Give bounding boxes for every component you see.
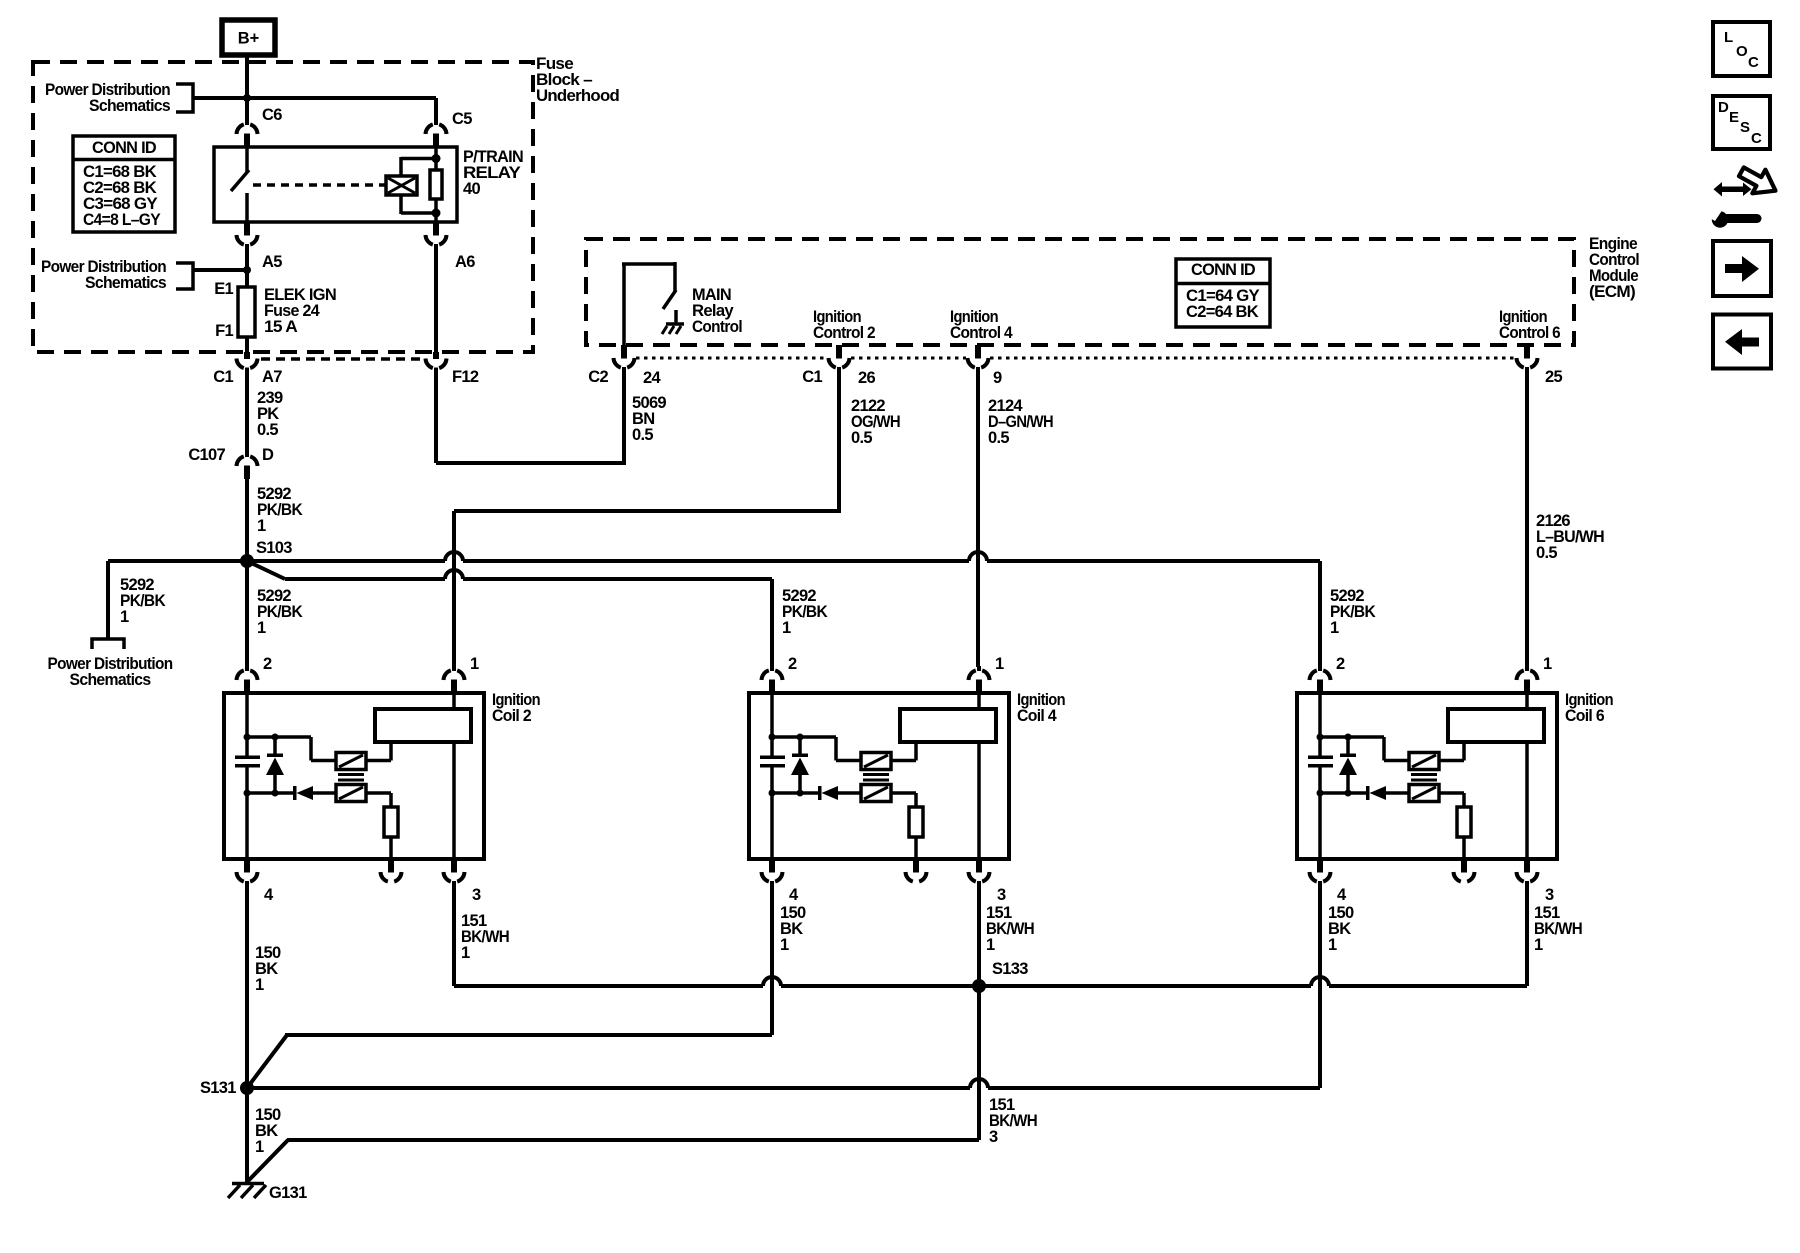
connector C107 pin D xyxy=(237,452,258,479)
coil 6 node d xyxy=(1345,790,1352,797)
wire hop over coil4 pin4 xyxy=(763,977,781,986)
wire 5069 BN 0.5 xyxy=(436,367,626,463)
coil 6 primary winding top xyxy=(1409,753,1439,770)
wire relay coil top branch xyxy=(401,157,436,161)
label Ignition Control 2 xyxy=(813,308,875,342)
relay P/TRAIN RELAY 40 box xyxy=(214,147,457,222)
wire B+ down to connector C6 xyxy=(245,55,249,121)
label 5292 coil6 xyxy=(1330,587,1376,637)
coil 4 primary winding bottom xyxy=(861,785,891,802)
ignition coil 2 box xyxy=(224,693,484,859)
svg-text:S103: S103 xyxy=(256,539,292,557)
icon diagnostic wrench with arrows xyxy=(1701,160,1782,228)
svg-text:1: 1 xyxy=(995,655,1004,673)
svg-text:Schematics: Schematics xyxy=(89,97,170,115)
label wire 2124 D-GN/WH 0.5 xyxy=(988,397,1053,447)
connector C6 xyxy=(237,120,258,147)
label Ignition Coil 4 xyxy=(1017,691,1066,725)
coil 6 diode xyxy=(1366,786,1386,800)
splice S133 xyxy=(972,979,986,993)
svg-text:1: 1 xyxy=(255,1138,264,1156)
wire 151 BK/WH coil4 pin3 through S133 xyxy=(977,881,981,1140)
svg-text:CONN ID: CONN ID xyxy=(92,139,157,157)
connector coil 4 pin 3 xyxy=(969,859,990,886)
svg-text:24: 24 xyxy=(643,369,661,387)
coil 6 internal wire pin2 xyxy=(1318,693,1322,757)
coil 6 internal wire pin1 xyxy=(1525,693,1529,859)
svg-text:C: C xyxy=(1751,130,1762,147)
svg-text:Control 2: Control 2 xyxy=(813,324,875,342)
coil 6 resistor xyxy=(1457,807,1471,837)
svg-text:1: 1 xyxy=(986,936,995,954)
coil 2 primary winding bottom xyxy=(336,785,366,802)
svg-text:D: D xyxy=(1718,99,1729,116)
connector coil 4 pin 2 xyxy=(762,666,783,693)
coil 6 secondary winding xyxy=(1448,709,1544,742)
svg-text:3: 3 xyxy=(997,886,1006,904)
label wire 150 coil 2 xyxy=(255,944,281,994)
coil 2 node d xyxy=(272,790,279,797)
ignition coil 6 module xyxy=(1297,655,1614,904)
svg-text:1: 1 xyxy=(255,976,264,994)
coil 6 node b xyxy=(1345,734,1352,741)
wire hop over coil6 pin4 xyxy=(1311,977,1329,986)
coil 4 internal wire pin2 xyxy=(770,693,774,757)
svg-text:L: L xyxy=(1724,29,1733,46)
coil 2 diode xyxy=(293,786,313,800)
wire C5 into relay resistor xyxy=(434,147,438,170)
wire 5292 PK/BK to S103 xyxy=(245,479,249,561)
relay node bottom xyxy=(432,209,441,218)
label 5292 coil2 xyxy=(257,587,303,637)
connector F12 xyxy=(426,352,447,373)
coil 2 control rail xyxy=(247,791,336,795)
wire 150 BK S131 to G131 xyxy=(245,1088,249,1183)
svg-text:0.5: 0.5 xyxy=(851,429,872,447)
svg-text:S: S xyxy=(1740,119,1750,136)
svg-text:1: 1 xyxy=(782,619,791,637)
ECM CONN ID table xyxy=(1176,259,1270,327)
svg-text:Coil 6: Coil 6 xyxy=(1565,707,1604,725)
svg-text:Control 6: Control 6 xyxy=(1499,324,1560,342)
svg-text:1: 1 xyxy=(120,608,129,626)
ECM internal ground xyxy=(662,324,684,334)
junction at B+ branch xyxy=(243,94,251,102)
icon back arrow xyxy=(1713,315,1771,369)
label wire 151 BK/WH 3 xyxy=(989,1096,1037,1146)
label wire 5069 BN 0.5 xyxy=(632,394,666,444)
label MAIN Relay Control xyxy=(692,286,742,336)
ignition coil 6 box xyxy=(1297,693,1557,859)
connector C1 pin A7 xyxy=(237,352,258,373)
connector coil 2 pin 2 xyxy=(237,666,258,693)
svg-text:C2=64 BK: C2=64 BK xyxy=(1186,303,1259,321)
svg-text:C2: C2 xyxy=(588,368,608,386)
wire 151 BK/WH coil6 pin3 xyxy=(1525,881,1529,986)
coil 2 resistor xyxy=(384,807,398,837)
label wire 5292 PK/BK 1 xyxy=(257,485,303,535)
wire 150 BK diagonal from S131 xyxy=(247,1035,772,1088)
svg-text:Coil 4: Coil 4 xyxy=(1017,707,1057,725)
svg-text:C6: C6 xyxy=(262,106,282,124)
svg-text:3: 3 xyxy=(989,1128,998,1146)
svg-text:2: 2 xyxy=(1336,655,1345,673)
connector C5 xyxy=(426,120,447,147)
ignition coil 4 module xyxy=(749,655,1066,904)
svg-text:G131: G131 xyxy=(269,1184,307,1202)
svg-text:Control 4: Control 4 xyxy=(950,324,1013,342)
svg-text:E: E xyxy=(1729,109,1739,126)
label Fuse Block - Underhood xyxy=(536,55,619,105)
svg-text:D: D xyxy=(262,446,274,464)
label wire 150 BK 1 (ground leg) xyxy=(255,1106,281,1156)
svg-text:40: 40 xyxy=(463,180,480,198)
svg-text:B+: B+ xyxy=(238,30,260,48)
label wire 150 coil 4 xyxy=(780,904,806,954)
relay switch lower contact xyxy=(245,193,249,222)
wire fuse F1 to connector A7 xyxy=(245,337,249,352)
coil 4 node c xyxy=(769,790,776,797)
wire 2126 L-BU/WH 0.5 xyxy=(1525,367,1529,667)
svg-text:C107: C107 xyxy=(188,446,225,464)
coil 2 internal wire pin2 xyxy=(245,693,249,757)
coil 2 node a xyxy=(244,734,251,741)
svg-text:Coil 2: Coil 2 xyxy=(492,707,531,725)
svg-text:1: 1 xyxy=(1330,619,1339,637)
connector coil 6 pin 2 xyxy=(1310,666,1331,693)
coil 2 internal wire pin1 xyxy=(452,693,456,859)
connector coil 2 pin 1 xyxy=(444,666,465,693)
wire 2124 D-GN/WH 0.5 xyxy=(976,367,980,667)
svg-text:C5: C5 xyxy=(452,110,472,128)
icon forward arrow xyxy=(1713,241,1771,296)
connector coil 6 pin 3 xyxy=(1517,859,1538,886)
svg-text:1: 1 xyxy=(1328,936,1337,954)
coil 6 resistor lead xyxy=(1462,837,1466,859)
icon DESC xyxy=(1713,96,1770,149)
ignition coil 4 box xyxy=(749,693,1009,859)
label Power Distribution Schematics (middle) xyxy=(41,258,167,292)
wire 239 PK 0.5 xyxy=(245,369,249,453)
icon LOC xyxy=(1713,22,1770,76)
label wire 2122 OG/WH 0.5 xyxy=(851,397,900,447)
svg-text:2: 2 xyxy=(263,655,272,673)
coil 2 node b xyxy=(272,734,279,741)
coil 4 node d xyxy=(797,790,804,797)
label wire 239 PK 0.5 xyxy=(257,389,283,439)
ground G131 xyxy=(228,1184,266,1199)
coil 6 primary feed rail xyxy=(1320,737,1409,761)
B+ battery feed symbol xyxy=(222,20,275,55)
svg-text:S133: S133 xyxy=(992,960,1028,978)
svg-text:A5: A5 xyxy=(262,253,282,271)
Fuse Block - Underhood dashed box xyxy=(33,62,533,352)
svg-text:1: 1 xyxy=(257,619,266,637)
wire hop over 2122 xyxy=(445,552,463,561)
label wire 5292 PK/BK 1 (left) xyxy=(120,576,166,626)
svg-text:C: C xyxy=(1748,54,1759,71)
coil 6 primary winding bottom xyxy=(1409,785,1439,802)
coil 4 capacitor xyxy=(760,756,785,768)
connector coil 6 unused pin xyxy=(1454,859,1475,882)
svg-text:1: 1 xyxy=(1534,936,1543,954)
wire A6 down to F12 xyxy=(434,244,438,352)
wire 2122 OG/WH 0.5 xyxy=(454,367,841,667)
label 5292 coil4 xyxy=(782,587,828,637)
wire B+ branch to C5 xyxy=(193,96,247,100)
coil 2 capacitor xyxy=(235,756,260,768)
svg-text:A6: A6 xyxy=(455,253,475,271)
label Power Distribution Schematics (top) xyxy=(45,81,171,115)
coil 4 secondary winding xyxy=(900,709,996,742)
svg-text:C1: C1 xyxy=(802,368,822,386)
ECM main relay control driver xyxy=(622,262,676,345)
svg-text:S131: S131 xyxy=(200,1079,236,1097)
coil 2 resistor lead xyxy=(389,837,393,859)
svg-text:Schematics: Schematics xyxy=(70,671,151,689)
wire 5292 second feed xyxy=(285,577,772,581)
svg-text:(ECM): (ECM) xyxy=(1589,283,1635,301)
coil 4 zener diode xyxy=(791,737,809,793)
svg-text:0.5: 0.5 xyxy=(257,421,278,439)
coil 4 resistor lead xyxy=(914,837,918,859)
coil 6 node a xyxy=(1317,734,1324,741)
wire 151 BK/WH rail xyxy=(454,984,1527,988)
splice S103 xyxy=(240,554,254,568)
svg-text:C4=8 L–GY: C4=8 L–GY xyxy=(83,211,161,229)
connector coil 4 pin 4 xyxy=(762,859,783,886)
label Power Distribution Schematics (bottom) xyxy=(48,655,174,689)
label wire 151 coil 2 xyxy=(461,912,509,962)
connector coil 4 pin 1 xyxy=(969,666,990,693)
wire hop over 2122 (second) xyxy=(445,570,463,579)
wire branch down to C5 xyxy=(434,98,438,121)
coil 2 zener diode xyxy=(266,737,284,793)
wire relay coil bottom branch xyxy=(399,195,403,214)
power distribution schematics reference (middle) xyxy=(176,263,193,289)
wire 5292 down to coil6 pin2 xyxy=(1318,561,1322,667)
svg-text:9: 9 xyxy=(993,369,1002,387)
ignition coil 2 module xyxy=(224,655,541,904)
coil 6 zener diode xyxy=(1339,737,1357,793)
svg-text:Control: Control xyxy=(692,318,742,336)
wire 5292 down to coil2 pin2 xyxy=(245,561,249,667)
svg-text:E1: E1 xyxy=(214,280,233,298)
connector coil 2 pin 4 xyxy=(237,859,258,886)
svg-text:1: 1 xyxy=(1543,655,1552,673)
wire 151 BK/WH coil2 pin3 to S133 rail xyxy=(452,881,456,986)
svg-text:25: 25 xyxy=(1545,368,1562,386)
relay resistor xyxy=(430,170,442,199)
svg-text:0.5: 0.5 xyxy=(1536,544,1557,562)
power distribution schematics reference (top) xyxy=(176,84,193,112)
wire 5292 down to coil4 pin2 xyxy=(770,579,774,667)
power distribution schematics reference (bottom) xyxy=(92,639,124,649)
label wire 151 coil 4 xyxy=(986,904,1034,954)
coil 2 primary winding top xyxy=(336,753,366,770)
coil 2 node c xyxy=(244,790,251,797)
svg-text:0.5: 0.5 xyxy=(632,426,653,444)
splice S131 xyxy=(240,1081,254,1095)
coil 4 transformer core xyxy=(863,773,889,782)
relay actuation dashed link xyxy=(253,183,386,187)
coil 4 control rail xyxy=(772,791,861,795)
junction at fuse feed xyxy=(243,266,251,274)
svg-text:3: 3 xyxy=(472,886,481,904)
svg-text:1: 1 xyxy=(470,655,479,673)
connector C1 pin 26 xyxy=(829,345,850,372)
relay switch blade xyxy=(231,170,249,191)
coil 4 resistor xyxy=(909,807,923,837)
wire 5292 branch to coil4 xyxy=(247,561,285,579)
wire branch to power distribution xyxy=(193,268,247,272)
wire 150 BK coil6 pin4 xyxy=(1318,881,1322,1088)
svg-text:3: 3 xyxy=(1545,886,1554,904)
label Ignition Coil 2 xyxy=(492,691,541,725)
label Ignition Control 6 xyxy=(1499,308,1560,342)
coil 6 transformer core xyxy=(1411,773,1437,782)
label wire 151 coil 6 xyxy=(1534,904,1582,954)
coil 4 primary winding top xyxy=(861,753,891,770)
connector strip dotted line (ECM) xyxy=(636,357,1515,360)
svg-text:1: 1 xyxy=(461,944,470,962)
coil 6 node c xyxy=(1317,790,1324,797)
connector A6 xyxy=(426,222,447,249)
coil 4 primary feed rail xyxy=(772,737,861,761)
wire 5292 main feed from S103 xyxy=(108,559,1320,563)
coil 4 diode xyxy=(818,786,838,800)
relay coil (X box) xyxy=(386,176,417,195)
svg-text:A7: A7 xyxy=(262,368,282,386)
connector pin 9 xyxy=(968,345,989,372)
coil 2 transformer core xyxy=(338,773,364,782)
connector pin 25 xyxy=(1517,345,1538,372)
svg-text:F1: F1 xyxy=(215,322,233,340)
label Engine Control Module (ECM) xyxy=(1589,235,1639,301)
svg-text:O: O xyxy=(1736,43,1748,60)
fuse block CONN ID table xyxy=(73,136,175,232)
svg-text:2: 2 xyxy=(788,655,797,673)
connector C2 pin 24 xyxy=(614,345,635,372)
relay switch upper contact xyxy=(245,147,249,172)
svg-text:15 A: 15 A xyxy=(264,318,298,336)
coil 2 winding connections xyxy=(366,744,391,807)
connector A5 xyxy=(237,222,258,249)
wire 150 BK coil2 pin4 to S131 xyxy=(245,881,249,1088)
label Ignition Control 4 xyxy=(950,308,1013,342)
relay node top xyxy=(432,154,441,163)
coil 6 winding connections xyxy=(1439,744,1464,807)
label Ignition Coil 6 xyxy=(1565,691,1614,725)
connector coil 2 unused pin xyxy=(381,859,402,882)
label P/TRAIN RELAY 40 xyxy=(463,148,523,198)
coil 4 winding connections xyxy=(891,744,916,807)
coil 4 internal wire pin1 xyxy=(977,693,981,859)
svg-text:C1: C1 xyxy=(213,368,233,386)
coil 2 secondary winding xyxy=(375,709,471,742)
svg-text:1: 1 xyxy=(257,517,266,535)
connector coil 6 pin 1 xyxy=(1517,666,1538,693)
wire 151 BK/WH 3 to ground xyxy=(248,1140,979,1181)
connector coil 4 unused pin xyxy=(906,859,927,882)
coil 6 control rail xyxy=(1320,791,1409,795)
wire horizontal branch xyxy=(245,96,436,100)
wire 5292 left branch to power distribution xyxy=(106,561,110,639)
svg-text:CONN ID: CONN ID xyxy=(1191,261,1256,279)
svg-text:F12: F12 xyxy=(452,368,479,386)
connector strip dotted line (fuse block) xyxy=(261,357,424,361)
svg-text:0.5: 0.5 xyxy=(988,429,1009,447)
wire 150 BK coil4 pin4 xyxy=(770,881,774,1035)
svg-text:26: 26 xyxy=(858,369,875,387)
label ELEK IGN Fuse 24 15 A xyxy=(264,286,336,336)
wire 150 BK rail from S131 xyxy=(247,1086,1320,1090)
coil 4 node a xyxy=(769,734,776,741)
svg-text:Schematics: Schematics xyxy=(85,274,166,292)
wire hop over 2124 xyxy=(969,552,987,561)
coil 2 primary feed rail xyxy=(247,737,336,761)
coil 4 node b xyxy=(797,734,804,741)
Engine Control Module dashed box xyxy=(586,239,1574,345)
fuse ELEK IGN Fuse 24 15A xyxy=(238,287,255,337)
wire hop over 151 vertical xyxy=(970,1079,988,1088)
coil 6 capacitor xyxy=(1308,756,1333,768)
connector coil 6 pin 4 xyxy=(1310,859,1331,886)
connector coil 2 pin 3 xyxy=(444,859,465,886)
label wire 150 coil 6 xyxy=(1328,904,1354,954)
svg-text:1: 1 xyxy=(780,936,789,954)
label wire 2126 L-BU/WH 0.5 xyxy=(1536,512,1604,562)
wire A5 to fuse E1 xyxy=(245,244,249,287)
svg-text:Underhood: Underhood xyxy=(536,87,619,105)
